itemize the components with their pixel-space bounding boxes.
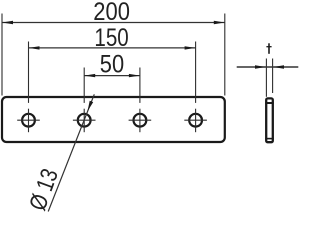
leader line for hole diameter — [48, 94, 94, 211]
dimension 200 arrow left — [2, 21, 13, 24]
hole H4 — [189, 114, 202, 127]
plate front view outline — [2, 97, 225, 142]
side view inner edge bottom — [265, 138, 273, 140]
side view inner edge top — [265, 102, 273, 104]
thickness dimension line — [237, 66, 299, 68]
dimension 50 arrow left — [84, 74, 95, 77]
dimension 200 extension lines — [2, 14, 225, 96]
thickness extension lines — [266, 59, 272, 97]
dimension 150 arrow right — [185, 46, 196, 49]
dimension 150 arrow left — [29, 46, 40, 49]
dimension 150 extension lines — [29, 42, 196, 103]
thickness tick t — [266, 43, 271, 54]
hole H2 centerlines — [73, 109, 96, 133]
svg-text:150: 150 — [94, 24, 128, 52]
svg-text:200: 200 — [93, 0, 130, 26]
hole H3 centerlines — [129, 109, 152, 133]
dimension 200 line — [2, 22, 225, 24]
hole H3 — [134, 114, 147, 127]
dimension 50 line — [84, 75, 140, 77]
hole H1 — [22, 114, 35, 127]
dimension 50 arrow right — [129, 74, 140, 77]
side view outline — [266, 98, 273, 142]
thickness arrow left — [255, 65, 266, 68]
dimension 50 extension lines — [84, 68, 140, 103]
leader arrowhead — [88, 101, 94, 112]
thickness arrow right — [273, 65, 284, 68]
hole H2 — [78, 114, 91, 127]
dimension 200 arrow right — [214, 21, 225, 24]
hole H4 centerlines — [184, 109, 207, 133]
svg-text:50: 50 — [100, 50, 124, 78]
dimension 150 line — [29, 47, 196, 49]
hole H1 centerlines — [17, 109, 40, 133]
